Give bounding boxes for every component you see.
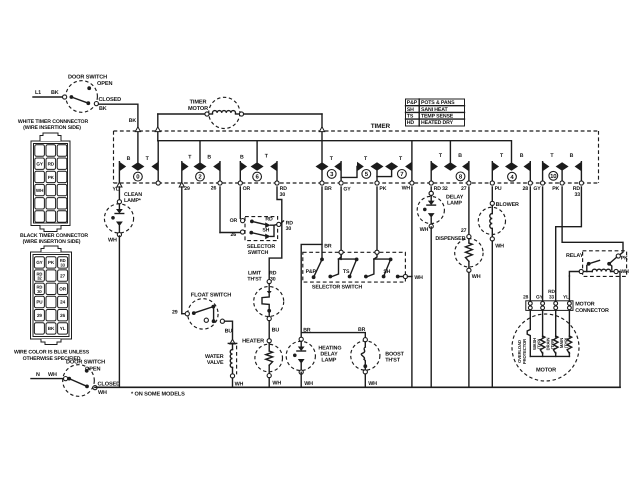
svg-text:BK: BK bbox=[51, 90, 59, 96]
svg-text:SELECTOR SWITCH: SELECTOR SWITCH bbox=[312, 284, 362, 290]
blade SH upper bbox=[252, 221, 268, 225]
svg-text:TEMP SENSE: TEMP SENSE bbox=[421, 114, 454, 120]
pole tie bbox=[271, 225, 274, 236]
timer box right bbox=[598, 131, 600, 183]
svg-text:29: 29 bbox=[37, 313, 42, 318]
open contact bbox=[204, 318, 208, 322]
svg-text:OPEN: OPEN bbox=[97, 81, 112, 87]
svg-text:GY: GY bbox=[533, 186, 541, 192]
svg-text:WH: WH bbox=[402, 186, 411, 192]
timer cam switch terminal 2 bbox=[182, 141, 220, 183]
timer output pin 29 bbox=[179, 182, 184, 187]
svg-text:10: 10 bbox=[550, 173, 557, 180]
svg-text:26: 26 bbox=[211, 186, 217, 192]
svg-text:SH: SH bbox=[262, 228, 269, 234]
wire clean lamp to neutral bus bbox=[118, 236, 120, 387]
boost thermostat bbox=[351, 338, 405, 374]
svg-text:BU: BU bbox=[272, 327, 280, 333]
svg-text:WH: WH bbox=[495, 243, 504, 249]
svg-text:29: 29 bbox=[172, 309, 178, 315]
motor common rail bbox=[530, 355, 569, 357]
svg-text:MOTOR: MOTOR bbox=[188, 106, 208, 112]
svg-text:PK: PK bbox=[379, 186, 386, 192]
svg-text:WIRE COLOR IS BLUE UNLESS: WIRE COLOR IS BLUE UNLESS bbox=[14, 350, 90, 356]
wire water valve to neutral bus bbox=[232, 378, 234, 387]
relay coil bbox=[592, 269, 610, 271]
svg-text:LAMP: LAMP bbox=[447, 200, 462, 206]
blade to RD30 bbox=[281, 221, 284, 223]
svg-text:N: N bbox=[36, 372, 40, 378]
wire to WH line bbox=[408, 276, 412, 278]
wire timer T-bus bbox=[158, 141, 512, 163]
svg-text:(WIRE INSERTION SIDE): (WIRE INSERTION SIDE) bbox=[23, 239, 81, 245]
wire PU timer to blower bbox=[491, 187, 493, 201]
switch blade bbox=[69, 379, 87, 387]
blade TS bbox=[350, 259, 357, 276]
svg-text:T: T bbox=[500, 153, 504, 159]
svg-text:OR: OR bbox=[243, 186, 251, 192]
svg-text:33: 33 bbox=[574, 192, 580, 198]
timer output pin OR bbox=[238, 181, 242, 185]
svg-text:RD: RD bbox=[548, 289, 555, 295]
svg-text:PK: PK bbox=[621, 256, 628, 262]
svg-text:26: 26 bbox=[230, 232, 236, 238]
svg-text:WH: WH bbox=[48, 372, 57, 378]
svg-text:WH: WH bbox=[108, 238, 117, 244]
svg-text:T: T bbox=[399, 156, 403, 162]
svg-text:WH: WH bbox=[420, 227, 429, 233]
drain winding lead bbox=[555, 311, 557, 337]
switch blade bbox=[71, 97, 88, 103]
svg-text:TIMER: TIMER bbox=[190, 100, 207, 106]
blade SH bbox=[384, 259, 391, 276]
white timer connector bbox=[18, 119, 89, 231]
svg-text:TS: TS bbox=[407, 114, 414, 120]
svg-text:PU: PU bbox=[36, 300, 43, 305]
timer box bottom bbox=[114, 182, 599, 184]
svg-text:BR: BR bbox=[324, 186, 332, 192]
svg-text:P&P: P&P bbox=[407, 100, 418, 106]
relay blade bbox=[589, 260, 600, 263]
wire BU float switch to water valve bbox=[225, 321, 233, 339]
svg-text:B: B bbox=[520, 153, 524, 159]
wire blower to neutral bus bbox=[491, 241, 493, 387]
black timer connector bbox=[20, 233, 88, 345]
svg-text:BR: BR bbox=[324, 244, 332, 250]
wire 27 timer to dispenser bbox=[468, 187, 470, 234]
svg-text:SANI HEAT: SANI HEAT bbox=[421, 107, 448, 113]
wire PK timer to relay bbox=[562, 187, 623, 255]
timer box entry pin (motor left) bbox=[155, 127, 160, 132]
svg-text:HD: HD bbox=[407, 120, 415, 126]
wire 28 timer to motor connector bbox=[529, 187, 531, 300]
wire GY timer to motor connector bbox=[542, 187, 544, 300]
wire 26 timer to selector switch bbox=[219, 187, 221, 233]
timer output pin 28 bbox=[528, 181, 532, 185]
svg-text:T: T bbox=[188, 155, 192, 161]
svg-text:TIMER: TIMER bbox=[371, 123, 391, 130]
svg-text:T: T bbox=[550, 153, 554, 159]
svg-text:WH: WH bbox=[36, 188, 44, 193]
wire L1 in bbox=[33, 96, 63, 98]
svg-text:28: 28 bbox=[523, 295, 529, 301]
wire boost thst to neutral bus bbox=[364, 374, 366, 387]
svg-text:PU: PU bbox=[495, 186, 502, 192]
svg-text:YL: YL bbox=[60, 326, 66, 331]
thermal element bbox=[361, 347, 365, 364]
wire WH selector to neutral bus bbox=[411, 277, 413, 388]
timer cam switch terminal 8 bbox=[431, 141, 469, 183]
svg-text:28: 28 bbox=[522, 186, 528, 192]
door switch (bottom, N side) bbox=[31, 360, 120, 397]
timer cam switch terminal 6 bbox=[240, 141, 277, 183]
svg-text:BK: BK bbox=[99, 106, 107, 112]
svg-text:26: 26 bbox=[60, 313, 65, 318]
svg-text:P&P: P&P bbox=[306, 269, 317, 275]
timer cam switch terminal 10 bbox=[543, 153, 582, 183]
wire OR timer to selector switch bbox=[239, 187, 241, 218]
relay coil wire bbox=[581, 271, 592, 273]
open contact bbox=[85, 369, 89, 373]
svg-text:CONNECTOR: CONNECTOR bbox=[575, 308, 609, 314]
svg-text:WH: WH bbox=[472, 274, 481, 280]
wire BR timer to selector switch bbox=[321, 187, 323, 258]
wire N in bbox=[31, 378, 64, 380]
motor bbox=[512, 311, 579, 381]
svg-text:B: B bbox=[240, 155, 244, 161]
svg-text:GY: GY bbox=[536, 295, 544, 301]
svg-text:RD: RD bbox=[48, 162, 55, 167]
wire dispenser to neutral bus bbox=[468, 272, 470, 387]
timer (dashed outline) bbox=[114, 123, 599, 183]
svg-text:BK: BK bbox=[48, 326, 55, 331]
blade bbox=[194, 307, 214, 314]
svg-text:WH: WH bbox=[272, 381, 281, 387]
svg-text:DISPENSER: DISPENSER bbox=[435, 236, 465, 242]
wire PK timer to selector switch bbox=[376, 187, 378, 250]
timer output pin WH bbox=[410, 181, 414, 185]
svg-text:DOOR SWITCH: DOOR SWITCH bbox=[66, 360, 105, 366]
svg-text:B: B bbox=[207, 155, 211, 161]
svg-text:HEATED DRY: HEATED DRY bbox=[421, 120, 454, 126]
float switch bbox=[172, 293, 231, 329]
wire timer motor to terminal 3 bbox=[244, 113, 322, 115]
wire RD-33 timer to motor connector bbox=[556, 187, 582, 300]
wire RD-32 timer to delay lamp bbox=[430, 187, 432, 191]
svg-text:30: 30 bbox=[286, 226, 292, 232]
svg-text:24: 24 bbox=[60, 300, 65, 305]
wire BR branch to heating delay lamp bbox=[301, 244, 322, 337]
svg-text:T: T bbox=[146, 156, 150, 162]
svg-text:32: 32 bbox=[37, 276, 42, 281]
svg-text:OR: OR bbox=[230, 218, 238, 224]
blower top terminal bbox=[490, 201, 494, 205]
svg-text:PROTECTOR: PROTECTOR bbox=[522, 339, 527, 364]
timer output pin (0-T) bbox=[156, 181, 160, 185]
svg-text:DOOR SWITCH: DOOR SWITCH bbox=[68, 74, 107, 80]
svg-text:RELAY: RELAY bbox=[566, 253, 584, 259]
svg-text:T: T bbox=[439, 153, 443, 159]
wire WH timer to selector switch exit bbox=[411, 187, 413, 277]
blower bbox=[478, 206, 505, 241]
svg-text:GY: GY bbox=[36, 260, 42, 265]
svg-text:MOTOR: MOTOR bbox=[536, 367, 556, 373]
svg-text:PK: PK bbox=[48, 175, 55, 180]
wire RD-30 to limit thermostat bbox=[269, 187, 282, 279]
wire heating delay lamp to neutral bus bbox=[300, 372, 302, 387]
thermal element bbox=[262, 294, 269, 309]
svg-text:OR: OR bbox=[59, 287, 66, 292]
svg-text:TH'ST: TH'ST bbox=[385, 357, 401, 363]
selector switch (main) bbox=[303, 244, 423, 291]
relay contact arm bbox=[609, 257, 617, 264]
GY entry bbox=[339, 250, 343, 254]
svg-text:SH: SH bbox=[383, 269, 390, 275]
timer motor bbox=[158, 97, 322, 162]
svg-text:CLOSED: CLOSED bbox=[99, 97, 122, 103]
svg-text:T: T bbox=[364, 156, 368, 162]
timer output pin PK bbox=[375, 181, 379, 185]
blade SH lower bbox=[251, 233, 268, 237]
svg-text:HEATER: HEATER bbox=[242, 339, 264, 345]
svg-text:L1: L1 bbox=[35, 90, 41, 96]
svg-text:B: B bbox=[570, 153, 574, 159]
svg-text:BU: BU bbox=[225, 329, 233, 335]
door switch (top, L1 side) bbox=[33, 74, 121, 112]
timer cam switch terminal 5 bbox=[341, 156, 383, 183]
water valve bbox=[205, 339, 244, 387]
svg-text:(TYP): (TYP) bbox=[564, 337, 569, 348]
delay lamp top terminal bbox=[429, 191, 433, 195]
wire YL relay to motor connector bbox=[568, 276, 570, 300]
svg-text:(TYP): (TYP) bbox=[537, 338, 542, 349]
svg-text:MOTOR: MOTOR bbox=[575, 302, 595, 308]
svg-text:PK: PK bbox=[552, 186, 559, 192]
timer output pin 26 bbox=[218, 181, 222, 185]
svg-text:LAMP*: LAMP* bbox=[124, 198, 142, 204]
relay bbox=[566, 251, 629, 277]
svg-text:27: 27 bbox=[461, 228, 467, 234]
svg-text:WH: WH bbox=[368, 381, 377, 387]
timer output pin RD-33 bbox=[579, 181, 583, 185]
blade P&P bbox=[314, 259, 322, 277]
svg-text:SH: SH bbox=[407, 107, 414, 113]
svg-text:27: 27 bbox=[60, 273, 65, 278]
timer cam switch terminal 0 bbox=[119, 141, 158, 183]
svg-text:FLOAT SWITCH: FLOAT SWITCH bbox=[191, 293, 231, 299]
delay lamp bbox=[417, 191, 444, 228]
wire WH relay to neutral bus bbox=[618, 272, 620, 388]
wire BR branch to boost thermostat bbox=[301, 333, 365, 338]
heating delay lamp bbox=[286, 337, 315, 374]
svg-text:BR: BR bbox=[358, 327, 366, 333]
svg-text:T: T bbox=[330, 156, 334, 162]
timer cam switch terminal 4 bbox=[492, 153, 530, 183]
clean lamp bbox=[104, 200, 133, 237]
svg-text:WH: WH bbox=[98, 390, 107, 396]
svg-text:OPEN: OPEN bbox=[85, 366, 100, 372]
overload protector bbox=[527, 311, 530, 357]
motor connector bbox=[523, 289, 609, 314]
wash winding bbox=[540, 336, 545, 354]
wire BU limit thst to heater bbox=[268, 321, 270, 339]
wire YL timer to clean lamp bbox=[118, 187, 120, 201]
svg-text:VALVE: VALVE bbox=[207, 360, 224, 366]
svg-text:TH'ST: TH'ST bbox=[247, 277, 262, 283]
svg-text:33: 33 bbox=[549, 294, 555, 300]
svg-text:(TYP): (TYP) bbox=[550, 338, 555, 349]
svg-text:TS: TS bbox=[343, 269, 350, 275]
timer output pin BR bbox=[320, 181, 324, 185]
wire delay lamp to neutral bus bbox=[430, 227, 432, 387]
legend box (cycle codes) bbox=[406, 99, 465, 126]
svg-text:B: B bbox=[458, 153, 462, 159]
heater bbox=[242, 339, 282, 378]
wire GY timer to selector switch bbox=[340, 187, 342, 259]
timer box entry pin (motor right) bbox=[319, 127, 324, 132]
limit thermostat bbox=[247, 271, 283, 321]
main winding lead bbox=[568, 311, 570, 337]
svg-text:LAMP: LAMP bbox=[321, 358, 336, 364]
main winding bbox=[567, 336, 572, 354]
selector switch (sani heat) bbox=[230, 216, 294, 255]
timer box top bbox=[114, 130, 599, 132]
svg-text:WH: WH bbox=[235, 381, 244, 387]
wire heater to neutral bus bbox=[268, 378, 270, 388]
svg-text:27: 27 bbox=[461, 186, 467, 192]
svg-text:WATER: WATER bbox=[205, 354, 224, 360]
timer output pin RD-30 bbox=[275, 181, 279, 185]
wire neutral bus WH bbox=[95, 386, 620, 388]
svg-text:GY: GY bbox=[36, 162, 42, 167]
svg-text:GY: GY bbox=[343, 186, 351, 192]
timer box left bbox=[113, 131, 115, 183]
open contact bbox=[87, 86, 91, 90]
wire relay to YL pin bbox=[569, 272, 579, 277]
timer output pin PK2 bbox=[560, 181, 564, 185]
svg-text:WH: WH bbox=[304, 381, 313, 387]
timer output pin PU bbox=[490, 181, 494, 185]
svg-text:SWITCH: SWITCH bbox=[248, 250, 269, 256]
wire BK door switch to timer 0 bbox=[99, 104, 138, 162]
svg-text:30: 30 bbox=[37, 289, 42, 294]
svg-text:RD 32: RD 32 bbox=[434, 186, 448, 192]
svg-text:30: 30 bbox=[280, 192, 286, 198]
timer output pin YL bbox=[117, 182, 122, 187]
dispenser top terminal bbox=[467, 235, 471, 239]
timer output pin RD-32 bbox=[429, 181, 433, 185]
svg-text:WH: WH bbox=[620, 269, 629, 275]
wire timer motor to bus bbox=[157, 114, 159, 141]
drain winding bbox=[553, 336, 558, 354]
svg-text:PK: PK bbox=[48, 260, 55, 265]
svg-text:* ON SOME MODELS: * ON SOME MODELS bbox=[131, 391, 185, 397]
timer output pin GY bbox=[339, 181, 343, 185]
svg-text:POTS & PANS: POTS & PANS bbox=[421, 100, 455, 106]
wash winding lead bbox=[542, 311, 544, 337]
wire to timer motor left bbox=[158, 113, 205, 115]
timer output pin GY2 bbox=[541, 181, 545, 185]
svg-text:T: T bbox=[265, 154, 269, 160]
timer box entry pin (BK) bbox=[135, 127, 140, 132]
svg-text:RD: RD bbox=[265, 216, 273, 222]
wire 29 timer to float switch bbox=[181, 187, 183, 314]
timer cam switch terminal 3 bbox=[316, 156, 342, 183]
svg-text:29: 29 bbox=[184, 186, 190, 192]
svg-text:YL: YL bbox=[563, 295, 569, 301]
svg-text:(WIRE INSERTION SIDE): (WIRE INSERTION SIDE) bbox=[23, 125, 81, 131]
dispenser bbox=[455, 239, 483, 273]
timer output pin 27 bbox=[467, 181, 471, 185]
svg-text:BK: BK bbox=[129, 118, 137, 124]
svg-text:WH: WH bbox=[414, 275, 423, 281]
timer cam switch terminal 7 bbox=[377, 141, 412, 183]
PK entry bbox=[375, 250, 379, 254]
svg-text:BLOWER: BLOWER bbox=[496, 202, 519, 208]
svg-text:B: B bbox=[127, 156, 131, 162]
